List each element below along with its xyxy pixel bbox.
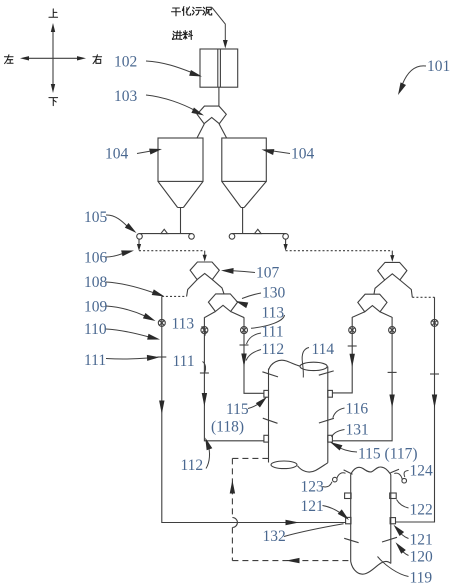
valve on R3 bbox=[349, 327, 356, 334]
tick on R1 bbox=[430, 373, 439, 375]
hopper 104 right bbox=[222, 138, 266, 234]
svg-text:104: 104 bbox=[105, 146, 129, 163]
svg-text:115: 115 bbox=[226, 401, 249, 418]
dashed wire to right top valve bbox=[286, 251, 395, 262]
svg-text:121: 121 bbox=[410, 531, 433, 548]
label 101 bbox=[395, 58, 450, 96]
wire valve 130 to line L2 bbox=[204, 312, 215, 318]
label 109 bbox=[84, 298, 157, 323]
wire box 102 to valve 103 bbox=[218, 87, 220, 106]
diverter valve 103 bbox=[197, 106, 226, 124]
vessel 119 nozzle upper-left bbox=[345, 493, 352, 499]
vessel 119 nozzle upper-right bbox=[390, 493, 397, 499]
flow arrow on L1 horizontal run bbox=[286, 520, 300, 525]
compass label shang (up) bbox=[49, 9, 58, 17]
label 113 right bbox=[251, 305, 285, 329]
tick on L1 bbox=[157, 356, 166, 358]
vessel 119 tick mid-right bbox=[382, 537, 397, 542]
pipe R3 bbox=[332, 317, 352, 393]
pipe L3 bbox=[244, 317, 264, 393]
tick on R3 bbox=[348, 345, 357, 347]
svg-text:101: 101 bbox=[427, 58, 450, 75]
label 114 bbox=[302, 341, 334, 378]
svg-text:111: 111 bbox=[262, 324, 284, 341]
vessel 119 top break wave bbox=[351, 467, 391, 474]
label 106 bbox=[84, 248, 135, 267]
vessel 119 corner tick left bbox=[344, 470, 353, 474]
label 110 bbox=[84, 321, 161, 342]
label 112 lower bbox=[181, 436, 213, 473]
wire valve 130 to line L3 bbox=[231, 312, 244, 318]
svg-text:132: 132 bbox=[263, 528, 286, 545]
right second diverter valve bbox=[358, 294, 387, 312]
valve on R1 bbox=[431, 319, 438, 326]
svg-text:131: 131 bbox=[346, 421, 369, 438]
vessel 119 left wall bbox=[350, 475, 352, 562]
svg-text:102: 102 bbox=[114, 54, 137, 71]
valve on L3 bbox=[241, 327, 248, 334]
vessel 119 tick mid-left bbox=[344, 538, 358, 542]
vessel 114 right wall bbox=[327, 367, 329, 463]
flow arrow left on recycle bottom bbox=[286, 558, 300, 563]
svg-text:115 (117): 115 (117) bbox=[358, 445, 418, 462]
label 124 bbox=[404, 462, 433, 479]
feed text jin liao (feed-in) bbox=[172, 31, 192, 40]
svg-text:104: 104 bbox=[291, 146, 315, 163]
vessel 114 tick mid-left bbox=[263, 418, 278, 423]
svg-text:112: 112 bbox=[181, 457, 204, 474]
label 111 middle bbox=[173, 353, 206, 373]
svg-text:111: 111 bbox=[84, 352, 106, 369]
tick on R2 bbox=[388, 371, 397, 373]
diverter valve 130 bbox=[208, 294, 237, 312]
vessel 114 nozzle upper-left bbox=[264, 390, 269, 397]
label 113 left bbox=[172, 315, 206, 336]
svg-text:111: 111 bbox=[173, 353, 195, 370]
label 119 bbox=[378, 557, 433, 587]
wire valve 103 to right hopper bbox=[219, 124, 227, 138]
compass label xia (down) bbox=[49, 98, 58, 106]
label 123 bbox=[301, 478, 333, 495]
flow arrow on L3 bbox=[241, 354, 246, 368]
flow arrow on R2 bbox=[389, 395, 394, 409]
vessel 119 right wall bbox=[390, 475, 392, 564]
wire right second valve to line R3 bbox=[352, 312, 365, 317]
svg-text:106: 106 bbox=[84, 250, 108, 267]
conveyor 105 left bbox=[137, 229, 195, 239]
svg-text:110: 110 bbox=[84, 321, 107, 338]
label 115 upper bbox=[226, 395, 269, 419]
svg-text:130: 130 bbox=[262, 284, 286, 301]
label 102 bbox=[114, 54, 203, 80]
vessel 114 tick top-right bbox=[319, 371, 334, 375]
svg-text:105: 105 bbox=[84, 209, 108, 226]
vessel 119 nozzle lower-left bbox=[346, 517, 351, 523]
svg-text:113: 113 bbox=[262, 305, 285, 322]
valve on L2 bbox=[201, 327, 208, 334]
flow arrow on R1 bbox=[432, 395, 437, 409]
svg-text:116: 116 bbox=[346, 400, 369, 417]
label 104 left bbox=[105, 146, 163, 163]
svg-text:114: 114 bbox=[312, 341, 335, 358]
tick on L2 bbox=[200, 372, 209, 374]
vessel 114 nozzle upper-right bbox=[328, 390, 333, 397]
pipe L1 bbox=[162, 296, 346, 522]
right top diverter valve bbox=[378, 262, 407, 280]
svg-text:112: 112 bbox=[262, 341, 285, 358]
wire right second valve to line R2 bbox=[380, 312, 392, 317]
dashed recycle riser bbox=[232, 458, 237, 560]
svg-text:120: 120 bbox=[410, 548, 434, 565]
dashed recycle bottom run bbox=[232, 560, 350, 562]
wire right top valve to line R1 jog bbox=[400, 280, 412, 297]
svg-text:123: 123 bbox=[301, 478, 325, 495]
compass horizontal axis bbox=[20, 56, 86, 60]
wire drop from right conveyor bbox=[284, 239, 288, 251]
vessel 114 tick mid-right bbox=[319, 418, 334, 423]
label 132 bbox=[263, 524, 344, 545]
wire drop from left conveyor bbox=[137, 239, 141, 251]
feeder box 102 bbox=[200, 49, 238, 87]
vessel 114 top break wave bbox=[269, 360, 328, 370]
wire valve 103 to left hopper bbox=[197, 124, 204, 138]
hopper 104 left bbox=[158, 138, 203, 234]
svg-text:(118): (118) bbox=[211, 418, 244, 435]
label 121 right bbox=[391, 523, 432, 549]
compass vertical axis bbox=[51, 23, 55, 93]
wire right top valve to right second valve bbox=[374, 280, 385, 294]
vessel 114 nozzle lower-left bbox=[264, 435, 269, 442]
label 122 bbox=[397, 500, 433, 519]
svg-text:124: 124 bbox=[410, 462, 434, 479]
wire valve 107 to valve 130 bbox=[212, 280, 224, 294]
vessel 114 nozzle lower-right bbox=[328, 435, 333, 442]
dashed jog 108 bbox=[162, 295, 187, 297]
diverter valve 107 bbox=[190, 262, 219, 280]
pipe L2 bbox=[204, 317, 264, 441]
vessel 119 corner tick right bbox=[390, 469, 399, 473]
svg-text:121: 121 bbox=[301, 498, 324, 515]
label 121 left bbox=[301, 498, 352, 522]
label 120 bbox=[393, 540, 433, 565]
dashed wire 106 to valve 107 bbox=[139, 251, 207, 262]
feed leader arrow into box 102 bbox=[212, 8, 228, 49]
flow arrow up on recycle riser bbox=[230, 480, 235, 494]
dashed jog right bbox=[412, 296, 434, 298]
svg-text:119: 119 bbox=[410, 569, 433, 586]
compass label zuo (left) bbox=[4, 55, 13, 64]
vessel 119 nozzle lower-right bbox=[390, 518, 395, 524]
label 105 bbox=[84, 209, 138, 235]
pipe R1 bbox=[396, 297, 435, 522]
svg-text:113: 113 bbox=[172, 315, 195, 332]
label 107 bbox=[221, 265, 280, 282]
vessel 114 left wall bbox=[268, 369, 270, 463]
label 108 bbox=[84, 274, 166, 299]
tick on L3 bbox=[240, 344, 249, 346]
svg-text:108: 108 bbox=[84, 274, 108, 291]
dashed recycle wire into vessel 114 bbox=[232, 457, 268, 459]
fitting 124 curl and circle bbox=[394, 473, 406, 483]
vessel 114 bottom break wave bbox=[271, 461, 328, 472]
label 112 right bbox=[246, 341, 284, 360]
fitting 123 curl and circle bbox=[333, 473, 346, 482]
vessel 119 bottom break wave bbox=[351, 562, 391, 575]
label 115 (117) bbox=[329, 439, 418, 462]
label 111 far left bbox=[84, 352, 160, 369]
label 103 bbox=[114, 88, 205, 118]
vessel 114 tick top-left bbox=[262, 372, 278, 377]
flow arrow on L2 bbox=[202, 393, 207, 407]
svg-text:103: 103 bbox=[114, 88, 138, 105]
label 130 bbox=[234, 284, 285, 308]
feed text gan hua wu ni (dried sludge) bbox=[172, 7, 212, 16]
label 131 bbox=[332, 421, 369, 438]
svg-text:122: 122 bbox=[410, 501, 433, 518]
wire valve 107 to line L1 jog bbox=[187, 280, 198, 297]
label 111 right bbox=[247, 324, 284, 345]
valve on L1 bbox=[158, 319, 165, 326]
compass label you (right) bbox=[93, 55, 102, 64]
flow arrow on L1 bbox=[159, 401, 164, 415]
label 104 right bbox=[261, 146, 315, 163]
svg-text:109: 109 bbox=[84, 298, 108, 315]
pipe R2 bbox=[332, 317, 392, 441]
valve on R2 bbox=[389, 327, 396, 334]
label 116 bbox=[333, 400, 369, 418]
svg-text:107: 107 bbox=[256, 265, 280, 282]
conveyor right bbox=[229, 229, 288, 239]
flow arrow on R3 bbox=[350, 354, 355, 368]
